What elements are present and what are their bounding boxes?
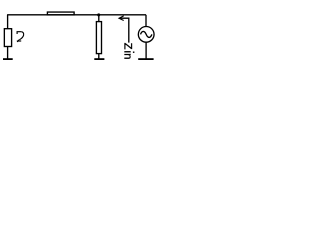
ground right <box>138 58 153 60</box>
label 2 (load) <box>17 32 24 42</box>
wire right drop to source <box>145 15 147 27</box>
ground left <box>3 58 13 60</box>
wire top rail <box>7 14 146 16</box>
wire shunt drop <box>98 15 100 22</box>
node junction dot <box>97 13 100 16</box>
series impedance box <box>47 12 74 15</box>
wire left box to ground <box>7 47 9 59</box>
wire source to ground <box>145 42 147 59</box>
Zin arrow shaft <box>119 18 129 42</box>
svg-text:ın: ın <box>121 50 133 59</box>
sine wave inside source <box>141 31 152 37</box>
source U1 circle <box>138 26 154 42</box>
svg-text:Z: Z <box>121 43 133 50</box>
impedance Z2 load box left <box>4 29 11 47</box>
wire shunt box to ground <box>98 54 100 59</box>
shunt impedance box <box>96 22 101 54</box>
Zin arrowhead <box>119 16 124 21</box>
wire left drop <box>7 15 9 29</box>
label Zin i-dot <box>133 52 135 53</box>
ground middle <box>94 58 104 60</box>
